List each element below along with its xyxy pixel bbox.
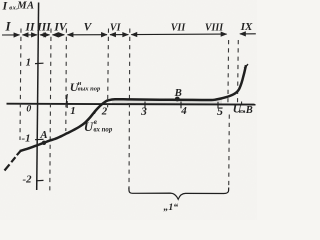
x tick 3 <box>144 102 146 109</box>
dashed boundary VI/VII <box>128 29 131 190</box>
y tick -2 <box>36 179 44 181</box>
point B dot <box>175 97 180 102</box>
leader U vh por <box>94 103 103 114</box>
leader U vyh por <box>66 94 67 104</box>
region arrow VI <box>110 34 128 36</box>
x-axis <box>7 103 256 106</box>
brace "1" <box>129 188 229 200</box>
x tick 1 <box>66 101 68 108</box>
point A dot <box>42 141 46 145</box>
grain overlay <box>0 0 257 220</box>
merged band shading between flat curve and axis <box>112 99 222 105</box>
dashed boundary III/IV <box>50 29 51 192</box>
dashed boundary V/VI <box>107 29 110 110</box>
dashed boundary IX right <box>237 40 240 104</box>
y-axis <box>37 3 39 191</box>
region arrow II <box>23 34 38 36</box>
dashed boundary VIII/IX <box>227 40 230 104</box>
curve end hook <box>244 64 248 68</box>
y tick +1 <box>35 62 44 64</box>
region arrow III <box>40 34 50 36</box>
paper background <box>0 0 257 220</box>
x tick near U label <box>241 102 243 105</box>
brace right dashed arm <box>228 115 231 190</box>
curve main <box>20 65 246 151</box>
region arrow I <box>2 34 20 36</box>
region arrow V <box>68 34 108 36</box>
x tick 5 <box>217 102 219 109</box>
dashed boundary IV/V <box>65 29 68 132</box>
region arrow IV <box>53 34 65 36</box>
dashed boundary I/II <box>20 29 21 141</box>
y tick -1 <box>35 138 44 140</box>
curve dashed tail <box>5 151 21 171</box>
region arrow VII-VIII <box>131 33 226 35</box>
region arrow IX <box>240 33 256 35</box>
x tick 4 <box>180 102 182 109</box>
